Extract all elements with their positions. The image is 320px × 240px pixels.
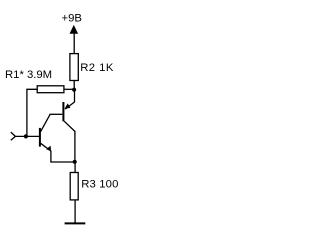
svg-text:R2 1K: R2 1K (80, 62, 114, 74)
wire: power arrow to R2 top (73, 33, 75, 53)
svg-text:R1* 3.9M: R1* 3.9M (5, 69, 52, 81)
node A junction dot (72, 88, 76, 92)
input terminal (11, 132, 16, 140)
wire: VT2 collector down to node C (74, 131, 76, 162)
node B junction dot (24, 134, 28, 138)
wire: R2 bottom to node A (73, 81, 75, 92)
resistor R1 (37, 86, 64, 93)
transistor VT2 (62, 102, 75, 131)
resistor R3 (70, 173, 78, 200)
wire: R1 left end corner down to input node B (27, 89, 37, 136)
power symbol arrow +9В (70, 25, 79, 34)
wire: VT1 emitter down and right to node C (51, 151, 75, 163)
wire: input terminal to VT1 base (15, 135, 39, 137)
svg-text:+9В: +9В (62, 13, 82, 25)
wire: node A down to VT2 emitter (74, 90, 76, 103)
wire: R1 right end to node A (64, 88, 73, 90)
wire: R3 bottom to ground (74, 200, 76, 223)
transistor VT1 (39, 115, 51, 152)
resistor R2 (70, 54, 78, 81)
node C junction dot (73, 160, 77, 164)
svg-text:R3 100: R3 100 (81, 179, 118, 191)
wire: VT1 collector to VT2 base (49, 113, 62, 115)
wire: node C to R3 top (74, 162, 76, 173)
ground (65, 222, 86, 224)
